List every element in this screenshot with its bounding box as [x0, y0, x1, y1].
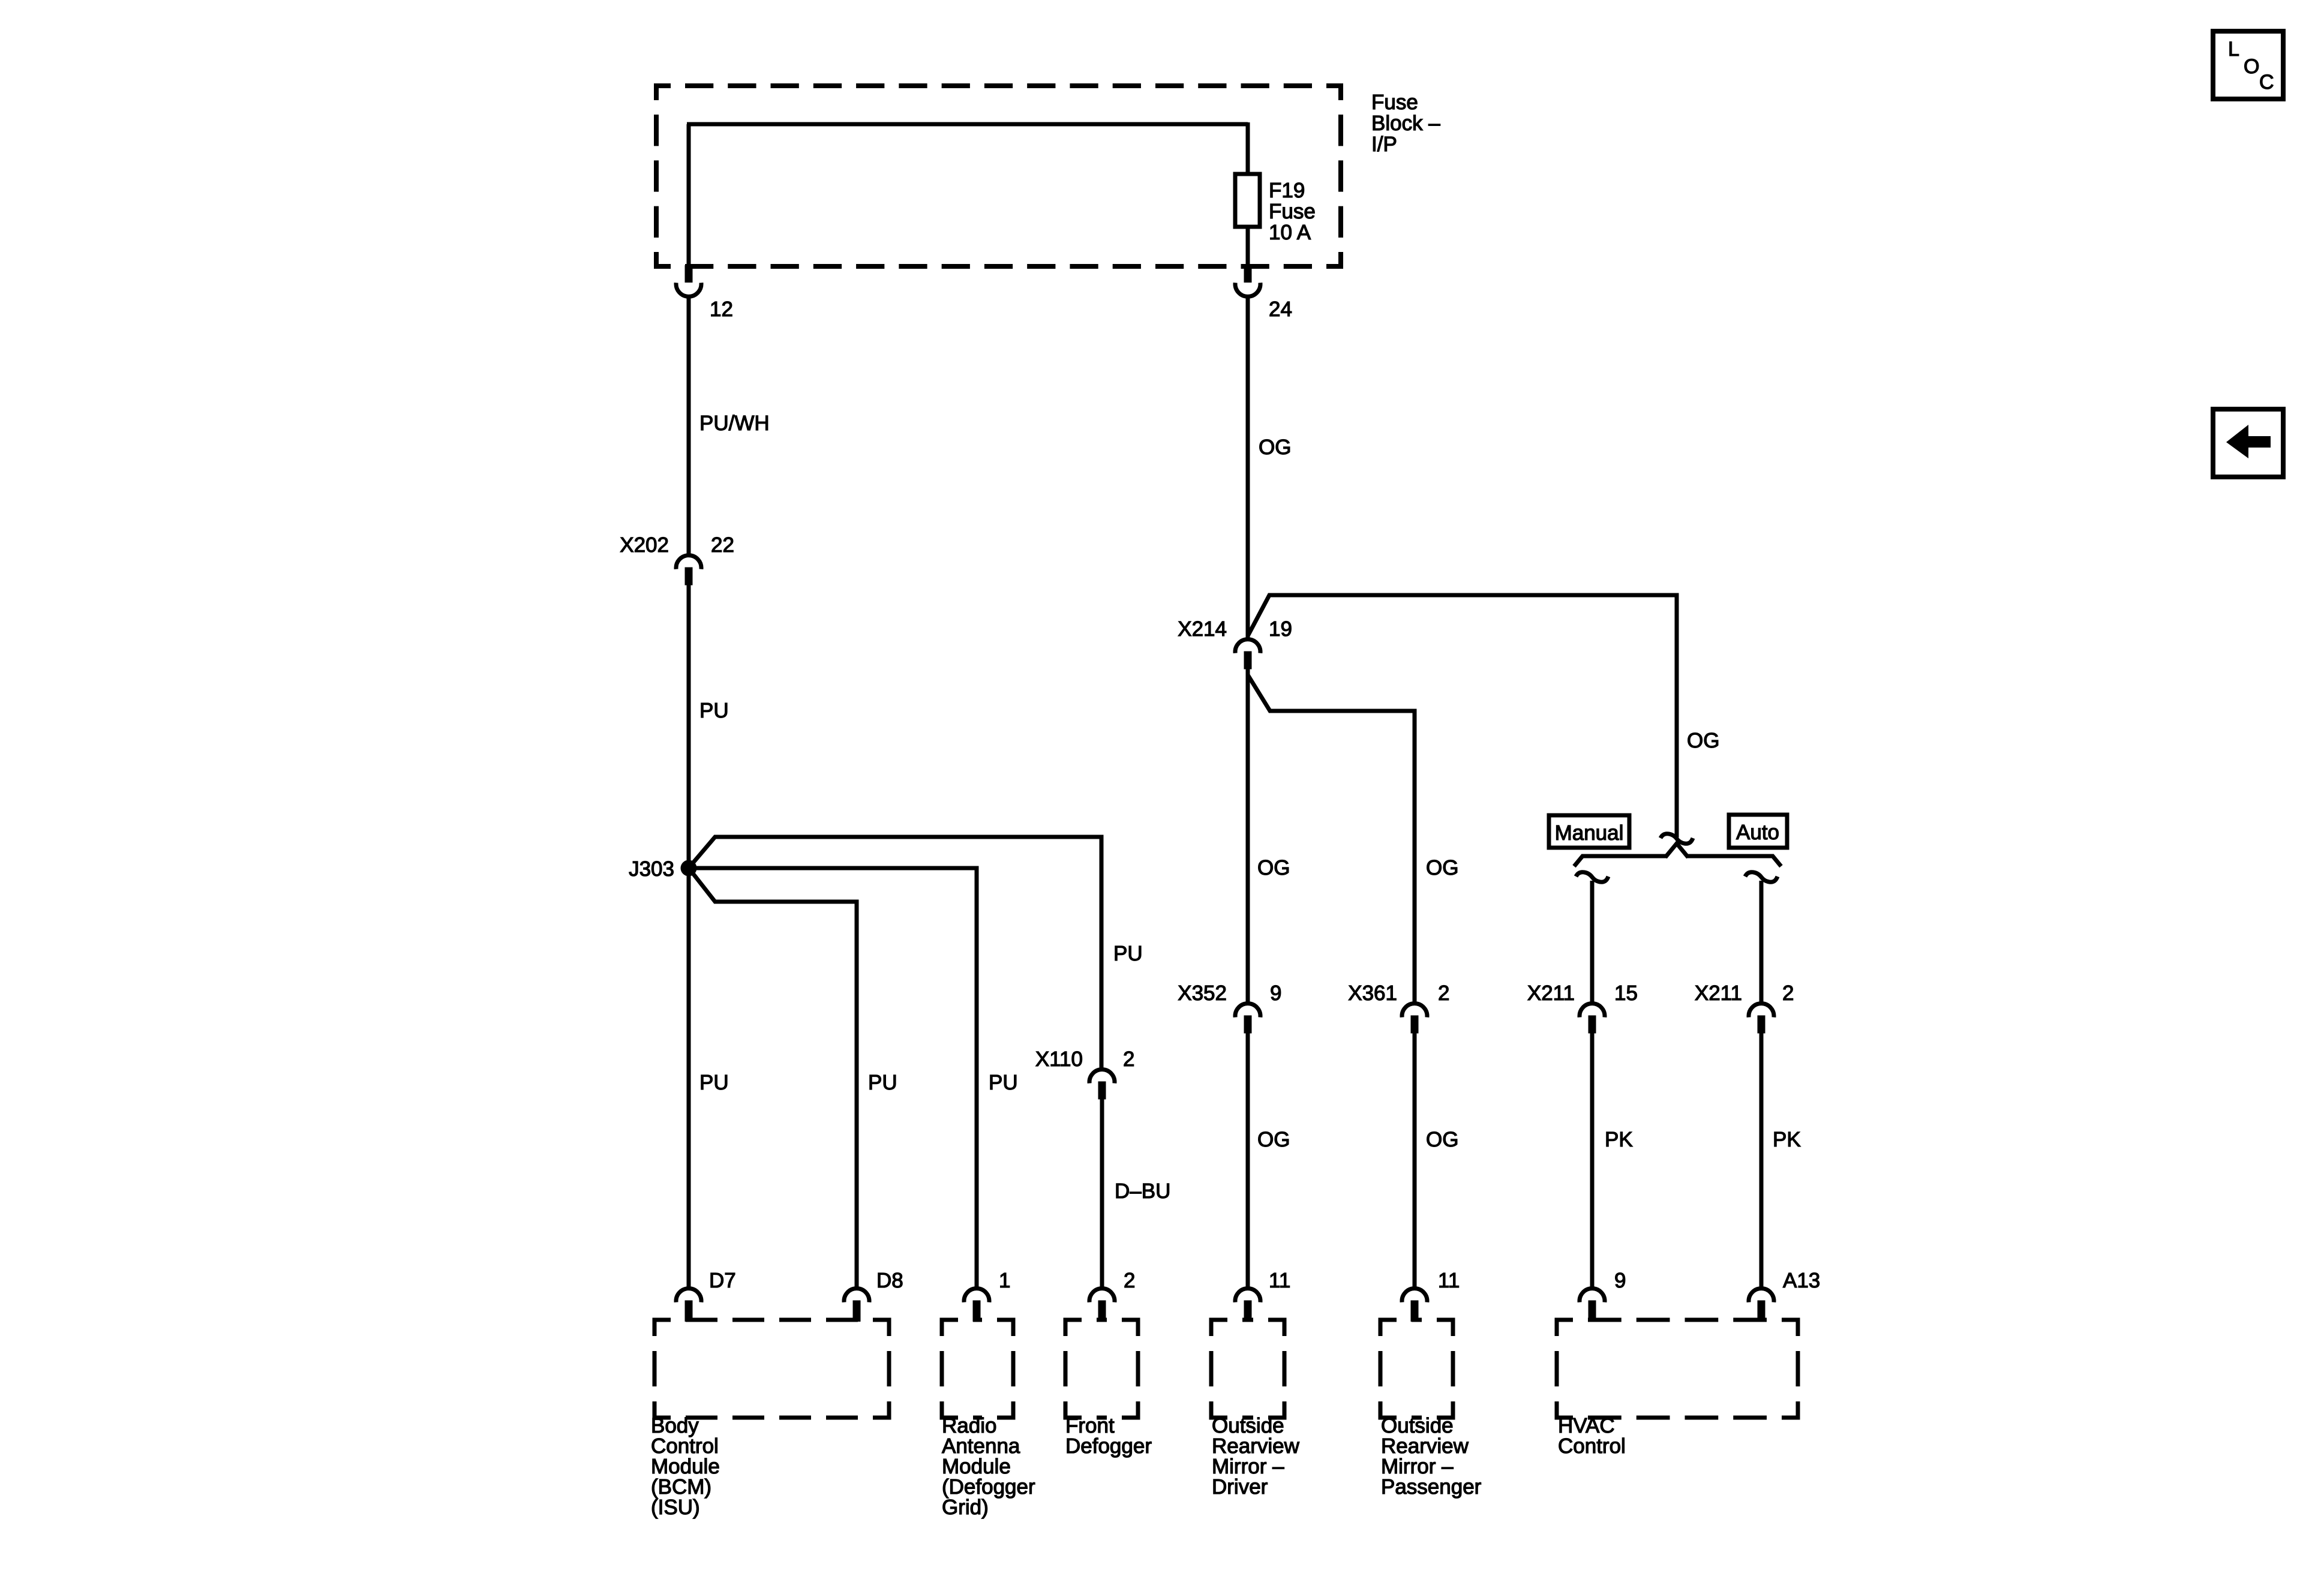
wire fuse block internal horizontal	[687, 122, 1248, 127]
svg-text:2: 2	[1438, 981, 1449, 1005]
svg-text:D7: D7	[709, 1269, 736, 1292]
svg-text:Defogger: Defogger	[1065, 1434, 1152, 1458]
wire Auto side to X211-2	[1759, 881, 1764, 1002]
options brace	[1574, 856, 1667, 866]
wire PU from X202 to J303	[687, 585, 691, 868]
svg-text:OG: OG	[1426, 856, 1458, 879]
wire D-BU from X110 to front defogger	[1100, 1099, 1104, 1287]
Manual option box	[1549, 815, 1629, 848]
wire OG X361 to mirror passenger	[1413, 1033, 1417, 1287]
connector pin 12 at fuse block	[685, 265, 693, 283]
svg-text:11: 11	[1269, 1269, 1290, 1292]
svg-text:2: 2	[1124, 1269, 1135, 1292]
svg-text:PU: PU	[1113, 942, 1143, 965]
svg-text:Fuse: Fuse	[1371, 91, 1418, 114]
svg-text:D–BU: D–BU	[1115, 1179, 1170, 1203]
connector HVAC pin 9	[1580, 1289, 1605, 1302]
connector mirror driver pin 11	[1235, 1289, 1260, 1302]
pin stub into component box	[1244, 1303, 1252, 1322]
connector X110 pin 2	[1089, 1070, 1115, 1083]
connector front defogger pin 2	[1089, 1289, 1115, 1302]
Front Defogger dashed box	[1065, 1320, 1082, 1336]
svg-text:(ISU): (ISU)	[651, 1496, 700, 1519]
pin stub into component box	[1411, 1303, 1419, 1322]
svg-text:L: L	[2228, 38, 2239, 61]
wire PU J303 to BCM D7	[687, 868, 691, 1287]
svg-text:Auto: Auto	[1736, 821, 1779, 844]
connector X352 pin 9	[1235, 1004, 1260, 1017]
wire OG from pin 24 to X214	[1246, 296, 1250, 638]
wire Manual side to X211-15	[1590, 881, 1595, 1002]
svg-text:X110: X110	[1035, 1047, 1083, 1071]
back arrow box	[2213, 409, 2283, 477]
connector X214 pin 19	[1235, 640, 1260, 653]
splice J303	[681, 860, 697, 876]
svg-text:X211: X211	[1695, 981, 1742, 1005]
connector X361 pin 2	[1402, 1004, 1427, 1017]
pin stub into component box	[1098, 1303, 1106, 1322]
fuse block I/P dashed box	[656, 86, 671, 100]
svg-text:9: 9	[1614, 1269, 1626, 1292]
LOC reference box	[2213, 31, 2283, 99]
svg-text:J303: J303	[629, 857, 674, 881]
svg-text:Control: Control	[1558, 1434, 1626, 1458]
svg-text:PU: PU	[989, 1071, 1018, 1094]
wire fuse block internal left vertical	[687, 124, 691, 271]
svg-text:2: 2	[1123, 1047, 1134, 1071]
svg-text:Fuse: Fuse	[1269, 200, 1316, 223]
wire below X214 to X352	[1246, 669, 1250, 1002]
svg-text:A13: A13	[1783, 1269, 1820, 1292]
Outside Rearview Mirror Driver dashed box	[1211, 1320, 1227, 1336]
wave at Auto wire top	[1745, 872, 1777, 882]
Body Control Module dashed box	[654, 1320, 671, 1336]
pin stub into component box	[685, 1303, 693, 1322]
svg-text:PU: PU	[868, 1071, 897, 1094]
svg-text:X352: X352	[1178, 981, 1227, 1005]
svg-text:PU/WH: PU/WH	[699, 412, 770, 435]
wire fuse block internal right vertical lower	[1246, 227, 1250, 271]
wire branch J303 to radio antenna module (PU)	[693, 868, 977, 1287]
svg-text:D8: D8	[876, 1269, 903, 1292]
svg-text:PK: PK	[1773, 1128, 1801, 1151]
wire PK X211-2 to HVAC A13	[1759, 1033, 1764, 1287]
svg-text:Driver: Driver	[1212, 1475, 1268, 1499]
svg-text:Manual: Manual	[1555, 821, 1624, 845]
pin stub into component box	[973, 1303, 981, 1322]
connector BCM pin D8	[844, 1289, 869, 1302]
svg-text:OG: OG	[1426, 1128, 1458, 1151]
Auto option box	[1729, 815, 1787, 848]
svg-text:OG: OG	[1257, 856, 1290, 879]
left arrow icon	[2226, 425, 2271, 458]
connector HVAC pin A13	[1749, 1289, 1774, 1302]
connector X202 pin 22	[676, 556, 701, 569]
svg-text:X202: X202	[620, 533, 669, 557]
svg-text:Grid): Grid)	[942, 1496, 989, 1519]
wire branch X214 to X361	[1248, 675, 1415, 1002]
svg-text:OG: OG	[1259, 436, 1291, 459]
fuse F19 10A	[1235, 174, 1260, 227]
wire OG X352 to mirror driver	[1246, 1033, 1250, 1287]
wire fuse block internal right vertical upper	[1246, 122, 1250, 175]
wave at Manual wire top	[1576, 872, 1608, 882]
svg-text:24: 24	[1269, 298, 1292, 321]
svg-text:15: 15	[1614, 981, 1638, 1005]
svg-text:Block –: Block –	[1371, 112, 1440, 135]
svg-text:OG: OG	[1687, 729, 1719, 752]
svg-text:12: 12	[710, 298, 733, 321]
svg-text:C: C	[2259, 71, 2274, 94]
HVAC Control dashed box	[1557, 1320, 1573, 1336]
connector X211 pin 15	[1580, 1004, 1605, 1017]
svg-text:O: O	[2244, 55, 2259, 78]
wire PK X211-15 to HVAC 9	[1590, 1033, 1595, 1287]
svg-text:22: 22	[711, 533, 734, 557]
svg-text:2: 2	[1782, 981, 1794, 1005]
svg-text:11: 11	[1438, 1269, 1460, 1292]
connector radio antenna pin 1	[964, 1289, 989, 1302]
connector mirror passenger pin 11	[1402, 1289, 1427, 1302]
pin stub into component box	[1589, 1303, 1596, 1322]
svg-text:1: 1	[999, 1269, 1010, 1292]
svg-text:X361: X361	[1348, 981, 1397, 1005]
wire PU/WH from pin 12 to X202	[687, 296, 691, 555]
wire branch X214 to OG brace feed	[1248, 595, 1677, 837]
pin stub into component box	[1758, 1303, 1765, 1322]
wire branch J303 to BCM D8 (PU)	[691, 871, 857, 1287]
connector X211 pin 2	[1749, 1004, 1774, 1017]
svg-text:X214: X214	[1178, 617, 1227, 641]
svg-text:I/P: I/P	[1371, 133, 1397, 156]
svg-text:PK: PK	[1605, 1128, 1633, 1151]
svg-text:19: 19	[1269, 617, 1292, 641]
Radio Antenna Module dashed box	[942, 1320, 958, 1336]
connector pin 24 at fuse block	[1244, 265, 1252, 283]
Outside Rearview Mirror Passenger dashed box	[1380, 1320, 1397, 1336]
pin stub into component box	[853, 1303, 861, 1322]
svg-text:10 A: 10 A	[1269, 221, 1311, 244]
svg-text:9: 9	[1270, 981, 1281, 1005]
svg-text:F19: F19	[1269, 179, 1305, 202]
wave break at OG wire end	[1661, 834, 1693, 843]
svg-text:Passenger: Passenger	[1381, 1475, 1482, 1499]
wire branch J303 to X110 (PU)	[691, 837, 1101, 1069]
connector BCM pin D7	[676, 1289, 701, 1302]
svg-text:OG: OG	[1257, 1128, 1290, 1151]
svg-text:PU: PU	[699, 1071, 729, 1094]
svg-text:X211: X211	[1527, 981, 1575, 1005]
svg-text:PU: PU	[699, 699, 729, 722]
